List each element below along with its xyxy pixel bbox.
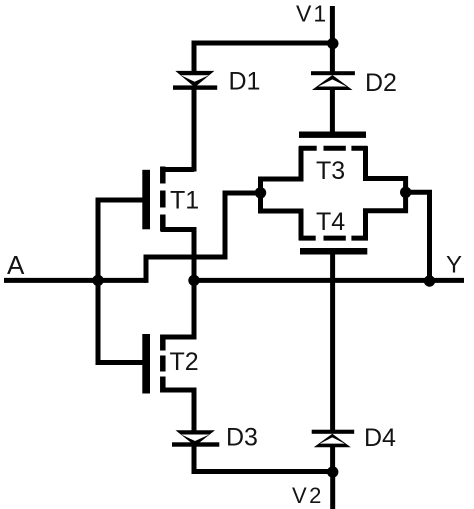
svg-text:A: A — [7, 250, 25, 280]
wire: V1 rail vertical — [330, 6, 335, 73]
T3/T4 box bottom dashed edge — [299, 236, 368, 241]
svg-text:V2: V2 — [292, 483, 324, 508]
wire: output to Y — [194, 278, 464, 283]
T3/T4 channel box right side with right terminal tab — [366, 146, 406, 240]
diode D1 triangle — [175, 71, 214, 87]
svg-text:T1: T1 — [170, 187, 199, 215]
wire: bottom gate to D4 anode — [330, 252, 335, 432]
wire: D3 cathode to V2 rail — [194, 446, 333, 472]
transistor T1 channel dashed — [160, 167, 166, 232]
junction: V2 node — [327, 466, 338, 477]
wire: T1 source lead to output node — [161, 230, 194, 281]
diode D4 triangle — [314, 434, 351, 447]
wire: D4 anode to V2 rail — [330, 447, 335, 473]
junction: A gate tap — [92, 275, 103, 286]
svg-text:Y: Y — [446, 252, 462, 279]
svg-text:T2: T2 — [170, 348, 199, 376]
svg-text:D3: D3 — [226, 424, 258, 452]
svg-text:D1: D1 — [229, 68, 261, 96]
wire: D2 anode to T3 gate — [330, 90, 335, 134]
wire: D1 cathode to T1 drain — [192, 89, 197, 172]
diode D2 cathode bar — [311, 71, 355, 75]
junction: Y node — [424, 275, 435, 286]
wire: right node to Y vertical — [406, 192, 430, 281]
wire: T2 drain lead to output node — [161, 278, 194, 337]
wire: A to left node step — [146, 193, 261, 283]
svg-text:D2: D2 — [365, 69, 397, 97]
diode D3 cathode bar — [172, 442, 219, 446]
transistor T2 gate bar — [142, 334, 150, 394]
diode D1 cathode bar — [173, 85, 217, 89]
junction: right node — [400, 187, 411, 198]
transistor T2 channel dashed — [160, 335, 166, 393]
transistor T1 gate bar — [142, 170, 150, 230]
svg-text:T4: T4 — [316, 208, 345, 236]
diode D4 cathode bar — [312, 430, 355, 434]
wire: gate line to T1/T2 gates — [98, 200, 144, 363]
wire: V2 stub — [330, 472, 335, 509]
T3/T4 channel box left side with left terminal tab — [261, 146, 302, 240]
wire: input A — [4, 278, 146, 283]
T3/T4 bottom gate bar — [300, 248, 367, 255]
wire: T1 drain lead — [161, 167, 194, 172]
svg-text:D4: D4 — [364, 424, 396, 452]
T3/T4 top gate bar — [299, 132, 366, 138]
wire: T2 source lead — [161, 390, 194, 432]
wire: top rail to D1 anode — [194, 43, 332, 72]
junction: output node — [188, 275, 199, 286]
svg-text:V1: V1 — [296, 1, 328, 27]
diode D2 triangle — [312, 75, 353, 90]
junction: V1 node — [327, 38, 338, 49]
junction: left node — [255, 187, 266, 198]
T3/T4 box top dashed edge — [299, 146, 368, 151]
svg-text:T3: T3 — [316, 157, 345, 185]
diode D3 triangle — [176, 430, 216, 446]
